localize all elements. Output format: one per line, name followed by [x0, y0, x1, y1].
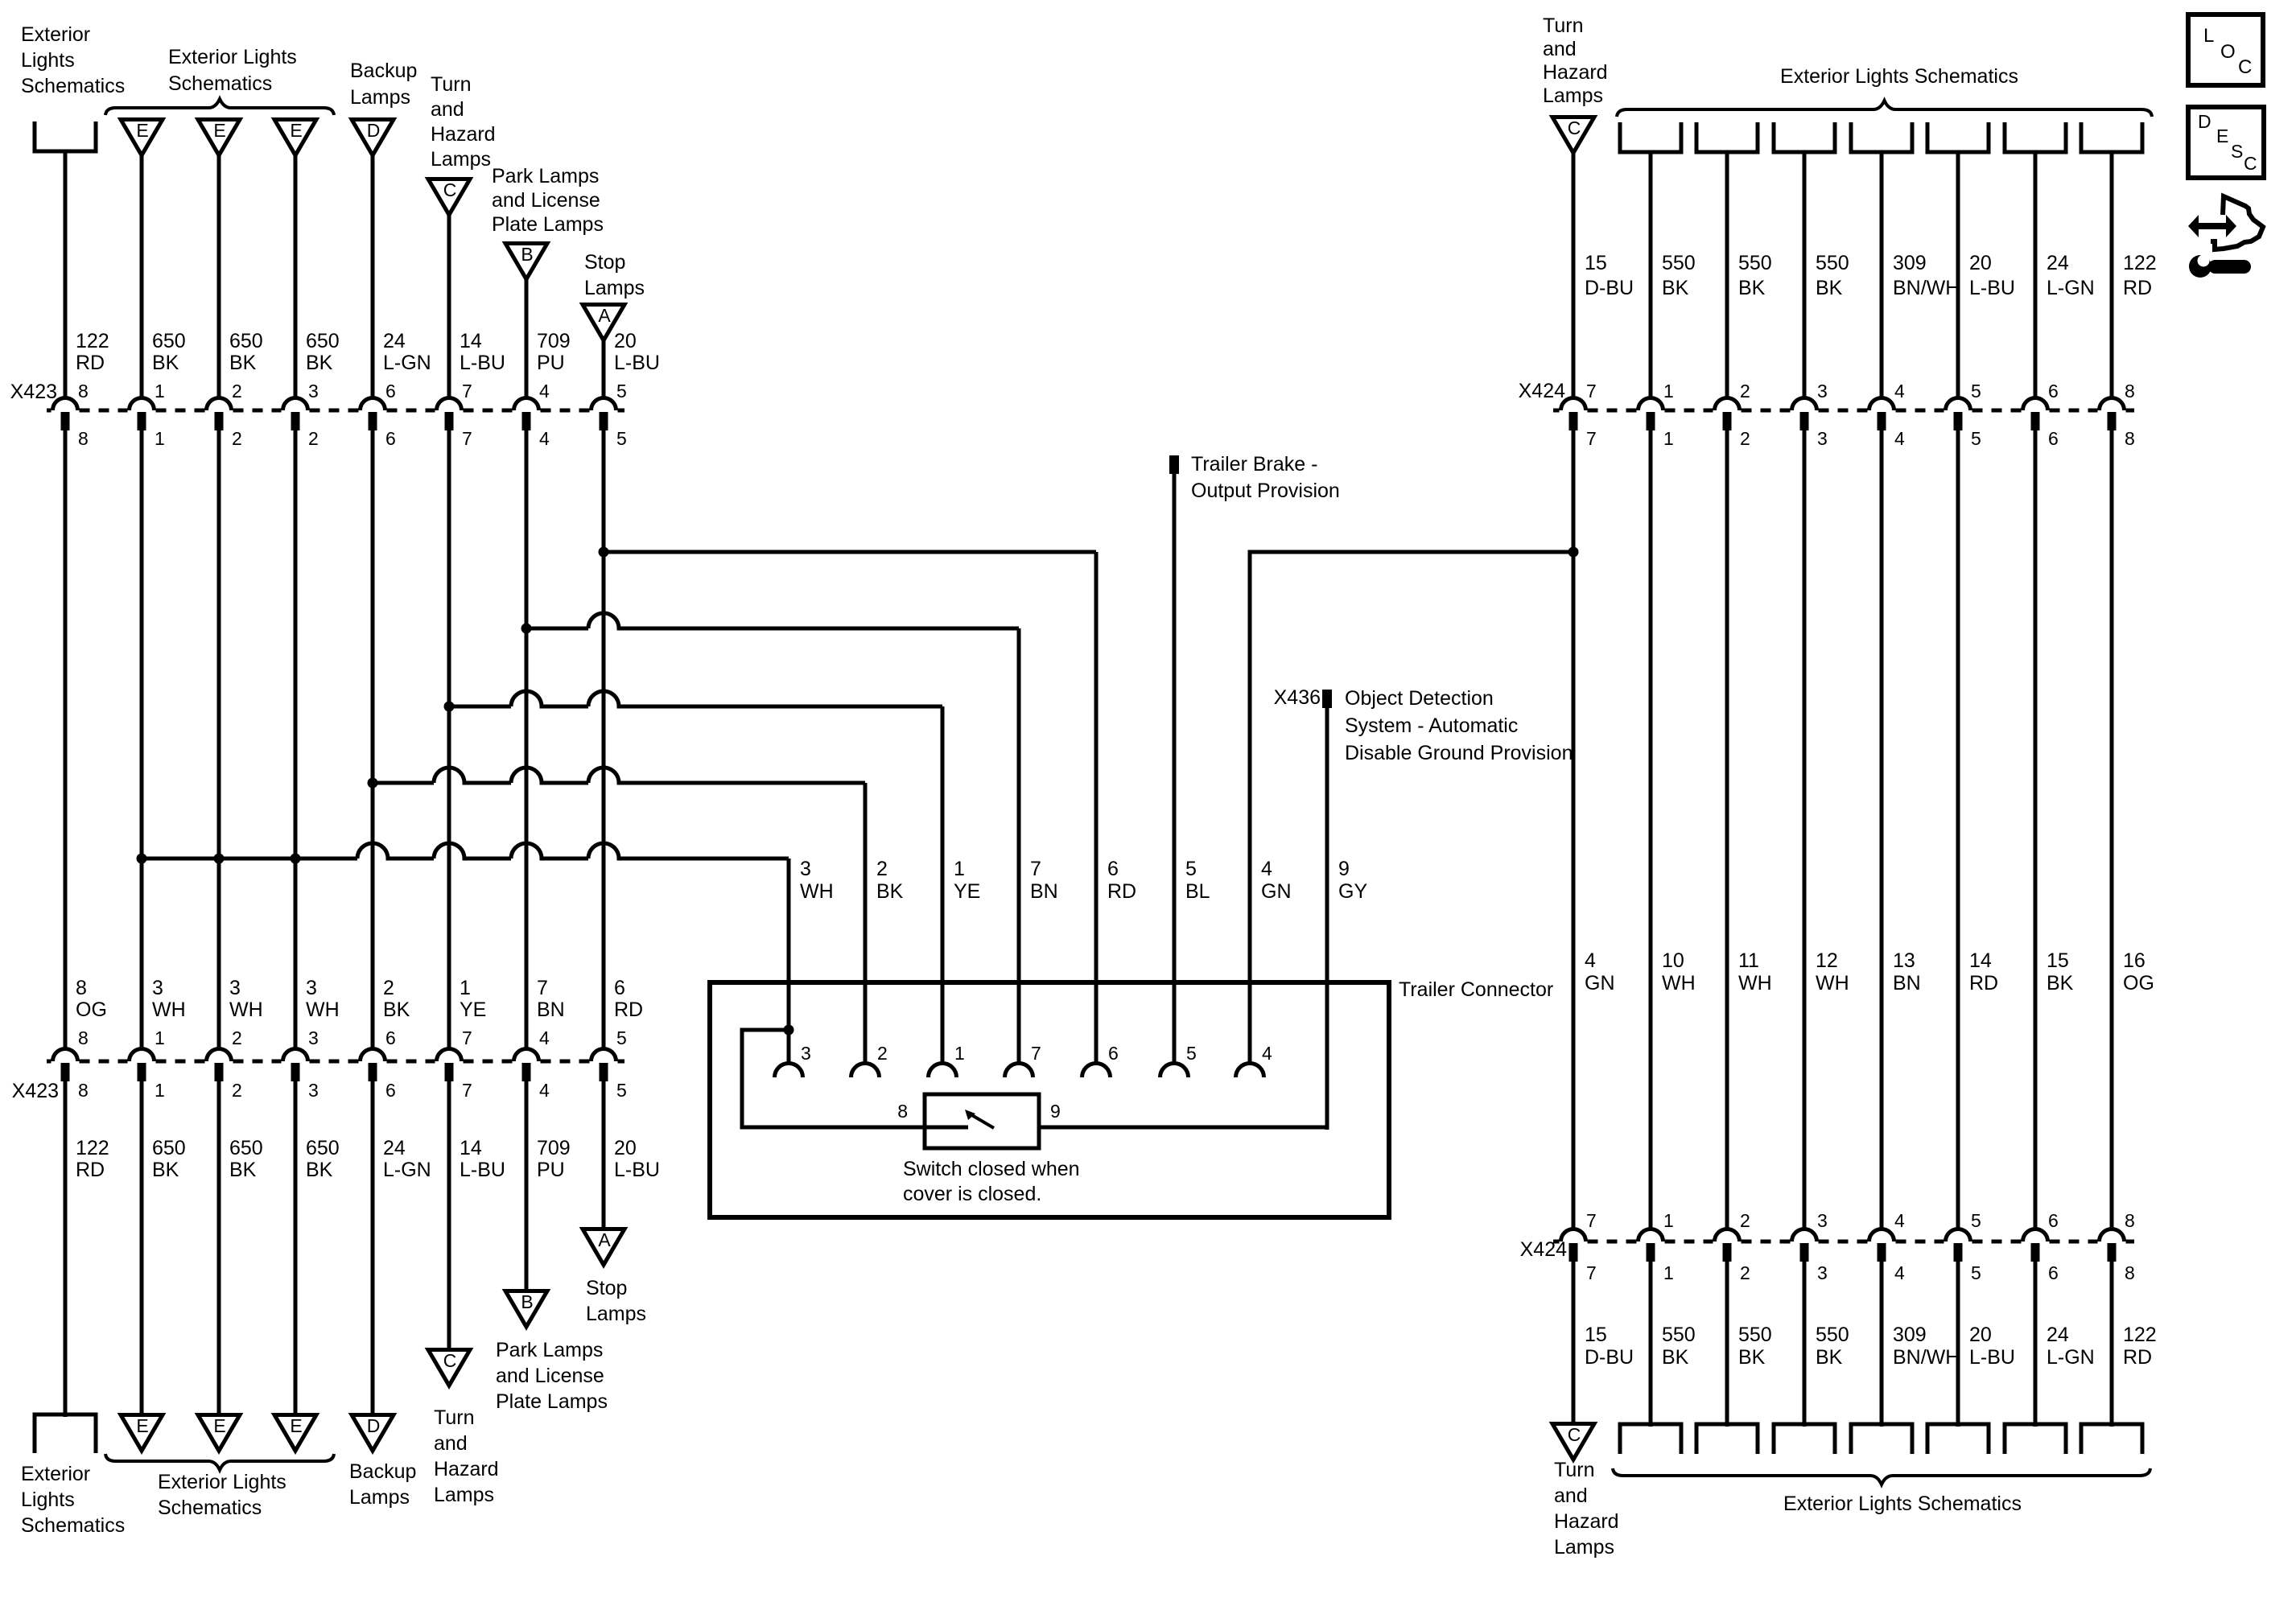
svg-text:WH: WH [1738, 972, 1772, 994]
wire col1 mid segment [64, 430, 68, 1051]
svg-text:X423: X423 [10, 381, 57, 403]
wire right col4 mid segment [1803, 430, 1807, 1231]
connector X424 lower dashed line [1553, 1240, 1560, 1244]
triangle C Turn/Hazard (top) [428, 179, 470, 216]
svg-text:6: 6 [1108, 1043, 1119, 1064]
X424 lower pin 5 arc and terminal [1946, 1229, 1971, 1242]
wire col5 mid segment [371, 430, 375, 1051]
svg-text:650: 650 [229, 1137, 263, 1159]
svg-text:BN/WH: BN/WH [1893, 1346, 1960, 1369]
off-page bracket right col8 (top) [2081, 122, 2142, 152]
junction dot col5 bus (2 BK) [368, 778, 378, 789]
svg-text:WH: WH [306, 999, 340, 1021]
wire right col5 bottom segment [1880, 1262, 1884, 1427]
svg-text:2: 2 [383, 977, 394, 999]
svg-text:16: 16 [2123, 949, 2146, 972]
svg-text:3: 3 [152, 977, 163, 999]
svg-text:650: 650 [306, 330, 340, 352]
wire right col3 mid segment [1725, 430, 1729, 1231]
svg-text:E: E [290, 120, 302, 141]
off-page bracket right col3 (bottom) [1696, 1424, 1758, 1454]
junction dot col8 bus (6 RD) [599, 547, 609, 558]
svg-text:Stop: Stop [584, 251, 625, 274]
wire right col6 top [1956, 152, 1960, 400]
svg-text:3: 3 [1817, 1262, 1828, 1283]
svg-text:8: 8 [2125, 1210, 2135, 1231]
wire col7 top [525, 279, 529, 400]
svg-text:122: 122 [2123, 1324, 2157, 1346]
svg-text:BN: BN [537, 999, 565, 1021]
svg-text:3: 3 [801, 1043, 811, 1064]
trailer connector pin 3 arc [775, 1064, 803, 1077]
wire 9 GY from X436 to switch pin 9 [1325, 708, 1329, 1130]
svg-text:Exterior Lights Schematics: Exterior Lights Schematics [1780, 65, 2018, 88]
junction dots cols 2-4 (3 WH bus) [137, 854, 147, 864]
svg-text:24: 24 [2047, 252, 2069, 274]
svg-text:Plate Lamps: Plate Lamps [496, 1390, 608, 1413]
svg-text:cover is closed.: cover is closed. [903, 1183, 1041, 1205]
wire col6 top [447, 215, 451, 400]
wire col2 mid segment [140, 430, 144, 1051]
svg-text:24: 24 [2047, 1324, 2069, 1346]
svg-text:X424: X424 [1519, 380, 1565, 402]
svg-text:309: 309 [1893, 1324, 1927, 1346]
wire 4 GN from trailer pin 4 up to right col1 [1250, 552, 1573, 1064]
wire col3 top [217, 155, 221, 400]
svg-text:BN: BN [1030, 880, 1058, 903]
svg-text:Turn: Turn [434, 1406, 474, 1429]
svg-text:15: 15 [2047, 949, 2069, 972]
X423 upper pin 8 arc and terminal [53, 398, 78, 411]
svg-text:2: 2 [1740, 1262, 1750, 1283]
svg-text:BK: BK [876, 880, 904, 903]
svg-text:L-GN: L-GN [2047, 277, 2095, 299]
X423 upper pin 2 arc and terminal [207, 398, 232, 410]
X424 upper pin 8 arc and terminal [2099, 398, 2124, 411]
svg-text:L-BU: L-BU [1969, 1346, 2015, 1369]
svg-text:RD: RD [1969, 972, 1998, 994]
svg-text:L-BU: L-BU [1969, 277, 2015, 299]
svg-text:X424: X424 [1520, 1238, 1567, 1261]
svg-text:6: 6 [385, 1080, 396, 1101]
svg-text:Output Provision: Output Provision [1191, 480, 1340, 502]
svg-text:Lamps: Lamps [350, 86, 410, 109]
svg-text:Park Lamps: Park Lamps [496, 1339, 603, 1361]
switch contact and lever [925, 1126, 968, 1130]
wire right col2 top [1649, 152, 1653, 400]
triangle E col4 (bottom) [274, 1415, 316, 1451]
X424 lower pin 7 arc and terminal [1561, 1229, 1586, 1242]
svg-text:BK: BK [152, 352, 179, 374]
triangle B Park Lamps (top) [505, 244, 547, 280]
svg-text:Hazard: Hazard [1554, 1510, 1619, 1533]
trailer connector pin 1 arc [929, 1064, 957, 1077]
X423 upper pin 3 arc and terminal [283, 398, 308, 411]
svg-text:6: 6 [385, 1027, 396, 1048]
svg-text:Schematics: Schematics [21, 1514, 125, 1537]
svg-text:4: 4 [539, 428, 550, 449]
svg-text:BK: BK [2047, 972, 2074, 994]
svg-text:BK: BK [1816, 277, 1843, 299]
wire right col1 bottom segment [1572, 1262, 1576, 1424]
svg-text:Lamps: Lamps [1554, 1536, 1614, 1559]
svg-text:B: B [521, 244, 533, 265]
wire col5 top [371, 155, 375, 400]
svg-text:and: and [1554, 1484, 1588, 1507]
wrench icon [2189, 255, 2211, 278]
svg-text:1: 1 [155, 428, 165, 449]
svg-text:GN: GN [1585, 972, 1615, 994]
wire col2 bottom segment [140, 1081, 144, 1415]
X423 lower pin 1 arc and terminal [130, 1049, 155, 1062]
junction dot col7 bus (7 BN) [521, 624, 532, 634]
X424 upper pin 6 arc and terminal [2023, 398, 2048, 411]
svg-text:RD: RD [76, 352, 105, 374]
svg-text:8: 8 [78, 1027, 89, 1048]
svg-text:24: 24 [383, 330, 406, 352]
svg-text:650: 650 [152, 330, 186, 352]
svg-text:Lights: Lights [21, 1489, 75, 1511]
svg-text:O: O [2220, 41, 2236, 63]
connector X436 terminal [1322, 690, 1332, 708]
LOC box icon [2188, 14, 2263, 85]
triangle C Turn/Hazard (top right) [1552, 117, 1594, 154]
X424 lower pin 8 arc and terminal [2099, 1229, 2124, 1242]
svg-text:Stop: Stop [586, 1277, 627, 1299]
off-page triangle E col3 (top) [198, 120, 240, 156]
svg-text:7: 7 [462, 428, 472, 449]
svg-text:Lamps: Lamps [1543, 84, 1603, 107]
svg-text:1: 1 [954, 1043, 965, 1064]
svg-text:1: 1 [1663, 381, 1674, 401]
svg-text:Plate Lamps: Plate Lamps [492, 213, 604, 236]
wire col8 top [602, 340, 606, 400]
svg-text:4: 4 [1261, 858, 1272, 880]
svg-text:2: 2 [232, 428, 242, 449]
svg-text:10: 10 [1662, 949, 1684, 972]
connector X423 lower dashed line [47, 1060, 52, 1064]
wire col3 bottom segment [217, 1081, 221, 1415]
svg-text:Exterior Lights: Exterior Lights [168, 46, 297, 68]
triangle A Stop Lamps (top) [583, 305, 624, 341]
svg-text:PU: PU [537, 352, 565, 374]
svg-text:8: 8 [78, 381, 89, 401]
brace under right brackets (bottom) [1613, 1468, 2150, 1484]
svg-text:24: 24 [383, 1137, 406, 1159]
svg-text:RD: RD [1107, 880, 1136, 903]
svg-text:5: 5 [616, 381, 627, 401]
svg-text:RD: RD [76, 1159, 105, 1181]
svg-text:B: B [521, 1291, 533, 1312]
svg-text:Lamps: Lamps [349, 1486, 410, 1509]
svg-text:and License: and License [496, 1365, 604, 1387]
trailer connector pin 5 arc [1160, 1064, 1189, 1077]
svg-text:4: 4 [1894, 428, 1905, 449]
triangle D Backup Lamps (top) [352, 120, 394, 156]
svg-text:5: 5 [1971, 1262, 1981, 1283]
svg-text:C: C [1568, 117, 1581, 138]
X423 lower pin 2 arc and terminal [207, 1049, 232, 1061]
wire col1 top [64, 151, 68, 400]
triangle A Stop Lamps (bottom) [583, 1229, 624, 1266]
X423 lower pin 7 arc and terminal [437, 1049, 462, 1062]
svg-text:C: C [2238, 56, 2252, 78]
svg-text:3: 3 [306, 977, 317, 999]
X424 lower pin 1 arc and terminal [1639, 1229, 1663, 1242]
svg-text:8: 8 [2125, 1262, 2135, 1283]
wire bus 6 RD from col8 to trailer pin 6 [604, 550, 1096, 554]
svg-text:Disable Ground Provision: Disable Ground Provision [1345, 742, 1573, 764]
svg-text:L-GN: L-GN [383, 352, 431, 374]
X424 lower pin 3 arc and terminal [1792, 1229, 1817, 1242]
off-page bracket right col2 (top) [1620, 122, 1681, 152]
svg-text:Exterior Lights: Exterior Lights [158, 1471, 286, 1493]
wire right col4 bottom segment [1803, 1262, 1807, 1427]
svg-text:7: 7 [1586, 1262, 1597, 1283]
svg-text:550: 550 [1738, 1324, 1772, 1346]
svg-text:550: 550 [1662, 1324, 1696, 1346]
X424 lower pin 4 arc and terminal [1869, 1229, 1894, 1242]
svg-text:1: 1 [155, 1027, 165, 1048]
X423 lower pin 6 arc and terminal [361, 1049, 385, 1062]
svg-text:122: 122 [76, 330, 109, 352]
svg-text:7: 7 [1586, 428, 1597, 449]
svg-text:2: 2 [877, 1043, 888, 1064]
svg-text:7: 7 [462, 1080, 472, 1101]
trailer connector box [710, 982, 1389, 1217]
X424 upper pin 7 arc and terminal [1561, 398, 1586, 411]
wire col7 mid segment [525, 430, 529, 1051]
wire col8 bottom segment [602, 1081, 606, 1229]
svg-text:4: 4 [1585, 949, 1596, 972]
wire col8 mid segment [602, 430, 606, 1051]
svg-text:YE: YE [460, 999, 486, 1021]
svg-text:6: 6 [1107, 858, 1119, 880]
svg-text:2: 2 [1740, 428, 1750, 449]
cover switch box [925, 1094, 1039, 1148]
wire right col6 mid segment [1956, 430, 1960, 1231]
svg-text:BK: BK [1738, 1346, 1766, 1369]
svg-text:2: 2 [232, 1080, 242, 1101]
wire right col7 bottom segment [2034, 1262, 2038, 1427]
svg-text:4: 4 [1894, 1210, 1905, 1231]
svg-text:Object Detection: Object Detection [1345, 687, 1494, 710]
svg-text:L-BU: L-BU [614, 1159, 660, 1181]
svg-text:6: 6 [2048, 1262, 2059, 1283]
svg-text:7: 7 [537, 977, 548, 999]
svg-text:2: 2 [232, 1027, 242, 1048]
svg-text:RD: RD [2123, 1346, 2152, 1369]
svg-text:L-BU: L-BU [614, 352, 660, 374]
svg-text:7: 7 [1030, 858, 1041, 880]
svg-text:4: 4 [1262, 1043, 1272, 1064]
X424 upper pin 4 arc and terminal [1869, 398, 1894, 411]
brace over E triangles [105, 99, 334, 115]
svg-text:1: 1 [954, 858, 965, 880]
wire right col7 top [2034, 152, 2038, 400]
svg-text:20: 20 [614, 1137, 637, 1159]
svg-text:Schematics: Schematics [21, 75, 125, 97]
svg-text:BK: BK [1662, 277, 1689, 299]
svg-text:1: 1 [1663, 1262, 1674, 1283]
X424 upper pin 5 arc and terminal [1946, 398, 1971, 411]
svg-text:Lamps: Lamps [586, 1303, 646, 1325]
svg-text:6: 6 [614, 977, 625, 999]
svg-text:3: 3 [308, 381, 319, 401]
svg-text:BK: BK [383, 999, 410, 1021]
off-page bracket right col4 (bottom) [1774, 1424, 1835, 1454]
X423 upper pin 6 arc and terminal [361, 398, 385, 411]
svg-text:BL: BL [1185, 880, 1210, 903]
wire right col2 bottom segment [1649, 1262, 1653, 1427]
X424 upper pin 1 arc and terminal [1639, 398, 1663, 411]
svg-text:Turn: Turn [1543, 14, 1583, 37]
svg-text:A: A [598, 1229, 611, 1250]
svg-text:8: 8 [78, 428, 89, 449]
svg-text:BK: BK [306, 1159, 333, 1181]
svg-text:4: 4 [1894, 1262, 1905, 1283]
wire right col3 top [1725, 152, 1729, 400]
svg-text:L-BU: L-BU [460, 352, 505, 374]
DESC box icon [2188, 107, 2264, 178]
connector X423 upper dashed line [47, 409, 52, 413]
svg-text:8: 8 [76, 977, 87, 999]
svg-text:BK: BK [1738, 277, 1766, 299]
svg-text:and License: and License [492, 189, 600, 212]
X424 upper pin 2 arc and terminal [1715, 398, 1740, 411]
svg-text:and: and [434, 1432, 468, 1455]
svg-text:9: 9 [1050, 1101, 1061, 1122]
svg-text:X423: X423 [12, 1080, 59, 1102]
trailer connector pin 4 arc [1236, 1064, 1264, 1077]
svg-text:PU: PU [537, 1159, 565, 1181]
wire right col7 mid segment [2034, 430, 2038, 1231]
svg-text:1: 1 [155, 1080, 165, 1101]
svg-text:X436: X436 [1274, 686, 1321, 709]
svg-text:WH: WH [800, 880, 834, 903]
svg-text:S: S [2231, 141, 2243, 162]
svg-text:and: and [1543, 38, 1577, 60]
off-page connector bracket (bottom left) [35, 1414, 96, 1453]
svg-text:650: 650 [152, 1137, 186, 1159]
svg-text:6: 6 [385, 428, 396, 449]
svg-text:709: 709 [537, 330, 571, 352]
svg-text:E: E [213, 120, 225, 141]
X424 lower pin 6 arc and terminal [2023, 1229, 2048, 1242]
svg-text:7: 7 [462, 1027, 472, 1048]
wire bus 1 YE from col6 to trailer pin 1 [449, 691, 942, 706]
svg-text:C: C [1568, 1424, 1581, 1445]
wire col1 bottom segment [64, 1081, 68, 1417]
svg-text:6: 6 [2048, 428, 2059, 449]
svg-text:11: 11 [1738, 949, 1759, 972]
svg-text:Schematics: Schematics [158, 1497, 262, 1519]
wire right col5 mid segment [1880, 430, 1884, 1231]
svg-text:550: 550 [1816, 252, 1849, 274]
svg-text:BK: BK [1662, 1346, 1689, 1369]
wire col4 mid segment [294, 430, 298, 1051]
svg-text:BN/WH: BN/WH [1893, 277, 1960, 299]
svg-text:20: 20 [1969, 252, 1992, 274]
svg-text:3: 3 [229, 977, 241, 999]
X423 upper pin 5 arc and terminal [592, 398, 616, 411]
svg-text:E: E [213, 1415, 225, 1436]
svg-text:A: A [598, 305, 611, 326]
svg-text:2: 2 [876, 858, 888, 880]
svg-text:Exterior: Exterior [21, 23, 90, 46]
wire col6 mid segment [447, 430, 451, 1051]
svg-text:3: 3 [1817, 428, 1828, 449]
svg-text:3: 3 [1817, 381, 1828, 401]
svg-text:Lamps: Lamps [434, 1484, 494, 1506]
off-page triangle E col4 (top) [274, 120, 316, 156]
svg-text:L: L [2203, 25, 2214, 47]
X423 upper pin 1 arc and terminal [130, 398, 155, 411]
svg-text:20: 20 [614, 330, 637, 352]
X424 lower pin 2 arc and terminal [1715, 1229, 1740, 1242]
X423 lower pin 8 arc and terminal [53, 1049, 78, 1062]
svg-text:4: 4 [539, 1080, 550, 1101]
wire right col8 bottom segment [2110, 1262, 2114, 1427]
svg-text:1: 1 [155, 381, 165, 401]
trailer connector pin 6 arc [1082, 1064, 1111, 1077]
trailer connector pin 2 arc [851, 1064, 880, 1077]
svg-text:E: E [2216, 126, 2228, 146]
svg-text:2: 2 [1740, 381, 1750, 401]
svg-text:2: 2 [232, 381, 242, 401]
svg-text:4: 4 [539, 381, 550, 401]
svg-text:550: 550 [1662, 252, 1696, 274]
off-page bracket right col7 (top) [2005, 122, 2066, 152]
svg-text:5: 5 [1185, 858, 1197, 880]
svg-text:BK: BK [1816, 1346, 1843, 1369]
svg-text:Hazard: Hazard [434, 1458, 499, 1480]
svg-text:13: 13 [1893, 949, 1915, 972]
wire right col4 top [1803, 152, 1807, 400]
svg-text:15: 15 [1585, 1324, 1607, 1346]
svg-text:4: 4 [539, 1027, 550, 1048]
triangle E col3 (bottom) [198, 1415, 240, 1451]
svg-text:1: 1 [1663, 1210, 1674, 1231]
svg-text:309: 309 [1893, 252, 1927, 274]
svg-text:L-GN: L-GN [2047, 1346, 2095, 1369]
svg-text:3: 3 [800, 858, 811, 880]
junction dot on pin3 wire [784, 1025, 794, 1036]
wire bus 3 WH to trailer pin 3 [142, 843, 789, 859]
triangle E col2 (bottom) [121, 1415, 163, 1451]
wire col6 bottom segment [447, 1081, 451, 1350]
svg-text:550: 550 [1738, 252, 1772, 274]
svg-text:D: D [2198, 111, 2211, 132]
trailer brake output provision terminal [1169, 455, 1179, 474]
svg-text:D: D [367, 120, 381, 141]
off-page bracket right col5 (bottom) [1851, 1424, 1912, 1454]
junction dot on right col1 wire [1568, 547, 1579, 558]
wire from pin3 junction to switch pin 8 [742, 1030, 925, 1127]
wire 5 BL trailer brake to pin 5 [1173, 474, 1177, 1064]
off-page bracket right col6 (top) [1927, 122, 1989, 152]
connector end view icon (double arrow + connector face) [2188, 215, 2236, 237]
svg-text:Exterior Lights Schematics: Exterior Lights Schematics [1783, 1493, 2022, 1515]
svg-text:C: C [443, 179, 457, 200]
off-page connector bracket (top left) [35, 121, 96, 151]
brace over right brackets (top) [1617, 101, 2152, 117]
svg-text:20: 20 [1969, 1324, 1992, 1346]
triangle B Park Lamps (bottom) [505, 1291, 547, 1328]
svg-text:D-BU: D-BU [1585, 1346, 1634, 1369]
svg-text:5: 5 [616, 1027, 627, 1048]
svg-text:550: 550 [1816, 1324, 1849, 1346]
